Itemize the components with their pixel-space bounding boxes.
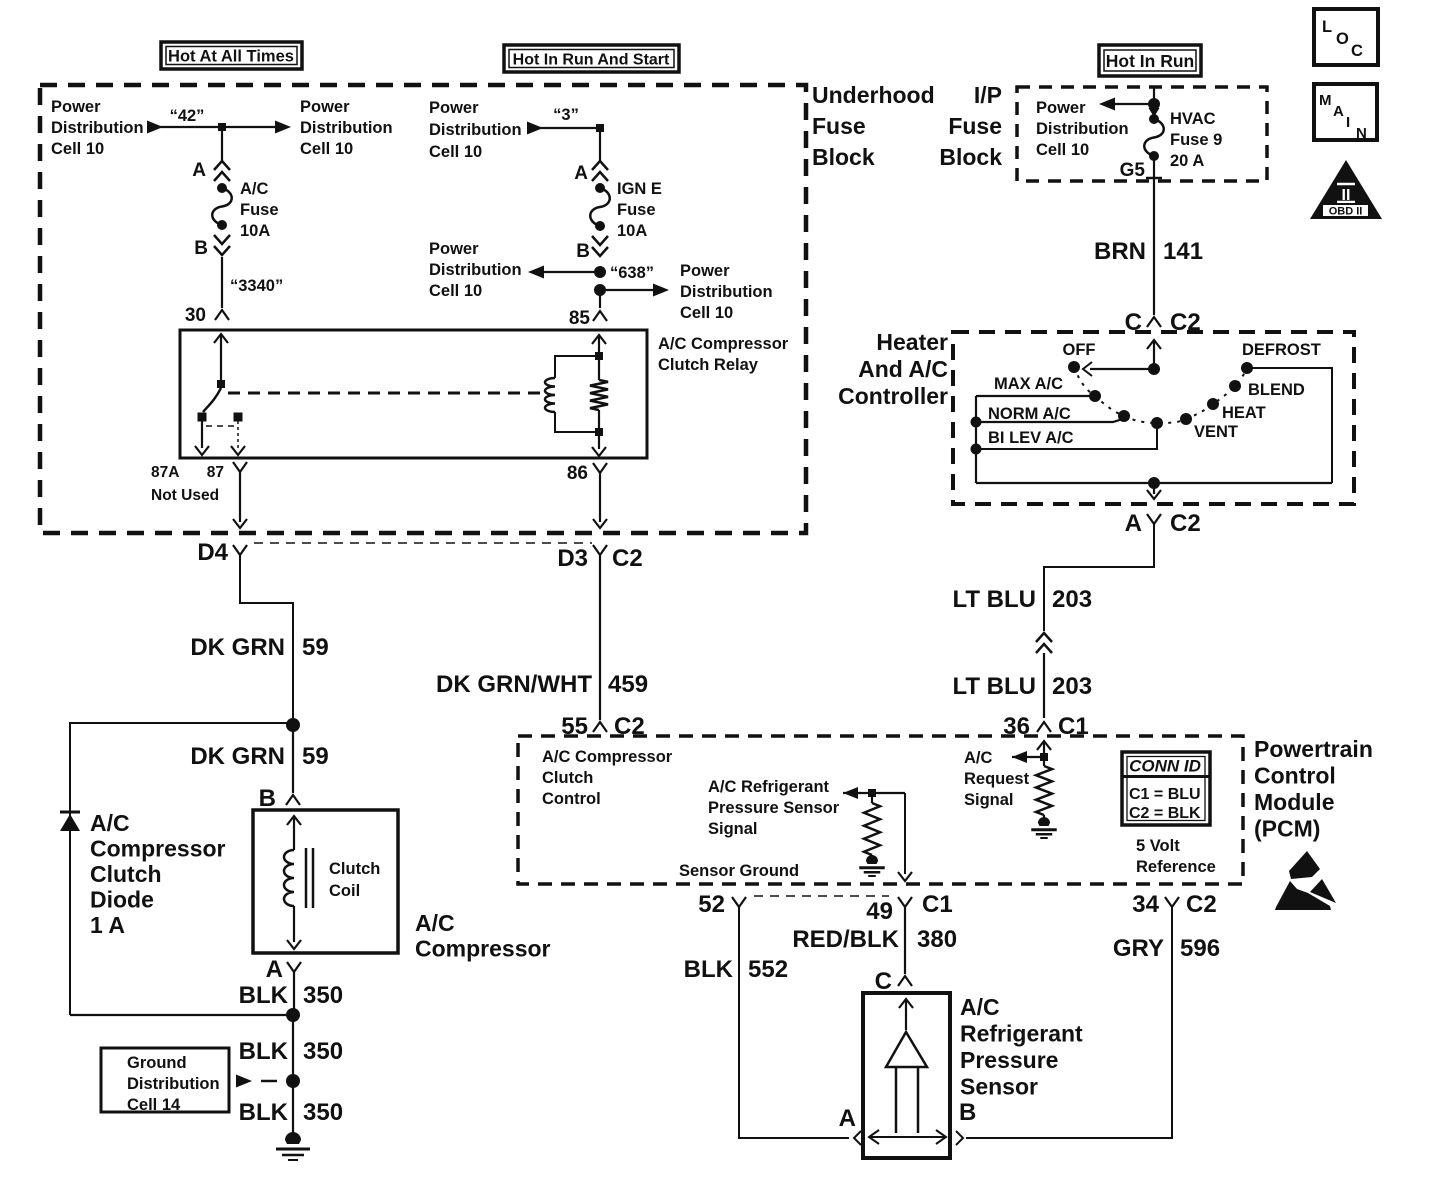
svg-text:LT BLU: LT BLU [952,673,1036,700]
relay pin 30 internal wire [214,334,228,343]
svg-text:203: 203 [1052,673,1092,700]
svg-text:NORM A/C: NORM A/C [988,405,1071,423]
svg-text:Power: Power [429,240,479,258]
svg-text:5 Volt: 5 Volt [1136,837,1180,855]
svg-text:Fuse: Fuse [948,113,1002,139]
heater and A/C controller border [953,332,1354,504]
svg-text:Distribution: Distribution [429,121,522,139]
svg-text:Hot At All Times: Hot At All Times [168,48,294,66]
svg-text:Power: Power [1036,99,1086,117]
wire signal to pin 49 [904,793,906,874]
svg-text:Clutch: Clutch [329,860,380,878]
svg-text:Sensor: Sensor [960,1074,1038,1100]
svg-text:Cell 10: Cell 10 [1036,141,1089,159]
svg-text:A/C Compressor: A/C Compressor [542,748,673,766]
wire D4 to junction [240,555,293,718]
wire to diode branch [70,723,293,1015]
svg-text:DK GRN/WHT: DK GRN/WHT [436,671,592,698]
svg-text:Power: Power [300,98,350,116]
svg-text:(PCM): (PCM) [1254,816,1320,842]
relay switch blade [203,388,221,412]
OBD II symbol [1310,160,1382,219]
sensor signal arrow [899,999,913,1008]
relay actuation dashed link [228,392,546,395]
svg-text:MAX A/C: MAX A/C [994,375,1063,393]
wire BRN 141 [1153,181,1155,315]
svg-text:BRN: BRN [1094,238,1146,265]
svg-text:BLK: BLK [239,1038,289,1065]
svg-text:OFF: OFF [1063,341,1096,359]
svg-text:Diode: Diode [90,887,154,913]
svg-text:Compressor: Compressor [90,836,226,862]
svg-text:RED/BLK: RED/BLK [792,926,899,953]
svg-text:Power: Power [680,262,730,280]
switch contact OFF [1068,361,1080,373]
svg-text:I/P: I/P [974,82,1002,108]
svg-text:Control: Control [542,790,601,808]
label box: Hot In Run [1099,45,1201,76]
wire BLK 552 [739,907,849,1138]
resistor R sensor signal pull [871,793,873,803]
ground (sensor signal) [871,855,873,858]
svg-text:B: B [576,241,590,262]
wire pin 86 down inside relay [598,432,600,449]
diode A/C compressor clutch diode [60,811,80,814]
svg-text:350: 350 [303,1038,343,1065]
svg-text:Refrigerant: Refrigerant [960,1021,1083,1047]
svg-text:Distribution: Distribution [680,283,773,301]
wire to power distribution right [222,126,276,128]
svg-text:Fuse: Fuse [617,201,656,219]
svg-text:A: A [574,163,588,184]
ground G (battery negative) [285,1132,301,1144]
svg-text:Block: Block [812,144,875,170]
in-line connector on LT BLU [1036,633,1052,642]
svg-text:Power: Power [429,99,479,117]
svg-text:C2: C2 [1170,510,1201,537]
wire 87 down (dotted) [237,421,239,448]
svg-text:52: 52 [698,891,725,918]
svg-text:A/C: A/C [240,180,269,198]
svg-text:Module: Module [1254,789,1335,815]
sensor transducer triangle [886,1032,927,1067]
junction on collector [1148,477,1160,489]
svg-text:A/C Compressor: A/C Compressor [658,335,789,353]
svg-text:A: A [1333,103,1344,120]
wire 3340 [221,257,223,308]
BI LEV A/C line [971,444,982,455]
fuse IGN E Fuse 10A [595,183,605,193]
svg-text:203: 203 [1052,586,1092,613]
wire 87A down [201,421,203,448]
relay: A/C Compressor Clutch Relay [180,330,647,458]
svg-text:BLEND: BLEND [1248,381,1305,399]
wire D3 to pin 55 [599,555,601,720]
svg-text:N: N [1356,125,1367,142]
svg-text:L: L [1322,18,1332,36]
svg-text:M: M [1319,92,1332,109]
wire diode to lower junction [70,1014,286,1016]
svg-text:IGN E: IGN E [617,180,662,198]
svg-text:Hot In Run: Hot In Run [1106,51,1194,71]
wire down to fuse A [599,128,601,161]
svg-text:Compressor: Compressor [415,936,551,962]
svg-text:B: B [194,238,208,259]
wire BLK 350 segment 2 [292,1015,294,1074]
svg-text:10A: 10A [240,222,270,240]
svg-text:D4: D4 [197,539,228,566]
svg-text:350: 350 [303,982,343,1009]
wire 87 to D4 [239,472,241,522]
sensor bottom pressure arrows [869,1136,946,1138]
svg-text:“3340”: “3340” [230,277,283,295]
svg-text:BLK: BLK [239,1099,289,1126]
svg-text:Powertrain: Powertrain [1254,736,1373,762]
svg-text:D3: D3 [557,545,588,572]
svg-text:49: 49 [866,898,893,925]
svg-text:A: A [839,1105,856,1132]
svg-text:34: 34 [1132,891,1159,918]
switch contact BI LEV A/C [1151,417,1163,429]
fuse HVAC Fuse 9 20A [1153,104,1155,119]
relay contact 87A [198,413,207,422]
svg-text:Distribution: Distribution [429,261,522,279]
fuse A/C Fuse 10A [217,183,227,193]
svg-text:OBD II: OBD II [1329,206,1363,218]
svg-text:C2: C2 [1186,891,1217,918]
svg-text:Cell 10: Cell 10 [429,143,482,161]
svg-text:C2 = BLK: C2 = BLK [1129,805,1201,822]
wire 3 feed [527,122,543,135]
MAIN reference box [1314,84,1377,140]
svg-text:“3”: “3” [553,106,579,124]
svg-text:I: I [1346,114,1350,131]
ground distribution callout box [101,1048,229,1112]
svg-text:A/C: A/C [415,910,455,936]
svg-text:Fuse 9: Fuse 9 [1170,131,1222,149]
svg-text:Ground: Ground [127,1054,187,1072]
svg-text:87: 87 [207,464,224,481]
connector boundary line C1 (light dashed) [754,895,889,897]
MAX A/C line [976,395,1090,397]
svg-text:A: A [266,956,283,983]
svg-text:Not Used: Not Used [151,487,219,504]
svg-text:Controller: Controller [838,383,948,409]
left wall [975,396,977,483]
svg-text:596: 596 [1180,935,1220,962]
svg-text:BLK: BLK [239,982,289,1009]
svg-text:Cell 10: Cell 10 [51,140,104,158]
svg-text:VENT: VENT [1194,423,1238,441]
svg-text:Clutch: Clutch [90,861,162,887]
connector boundary line C2 (light dashed) [254,542,592,544]
wire to OFF contact [1090,368,1154,370]
svg-text:87A: 87A [151,464,179,481]
svg-text:Pressure: Pressure [960,1047,1058,1073]
svg-text:Distribution: Distribution [51,119,144,137]
svg-text:C: C [1351,42,1363,60]
label box: Hot At All Times [161,42,302,69]
svg-text:Control: Control [1254,763,1336,789]
svg-text:A: A [192,160,206,181]
svg-text:Cell 10: Cell 10 [429,282,482,300]
wire heater to PCM pin 36 [1044,524,1154,631]
svg-text:Fuse: Fuse [240,201,279,219]
svg-text:552: 552 [748,956,788,983]
junction node BLK/diode [286,1008,300,1022]
wire into controller [1147,340,1161,349]
svg-text:Block: Block [939,144,1002,170]
junction node ground branch [286,1074,300,1088]
svg-text:A/C Refrigerant: A/C Refrigerant [708,778,830,796]
PCM border [518,736,1243,884]
svg-text:Distribution: Distribution [300,119,393,137]
switch contact NORM A/C [1118,410,1130,422]
sensor pressure stem [895,1067,898,1133]
svg-text:Pressure Sensor: Pressure Sensor [708,799,840,817]
component: A/C Compressor box [253,810,398,953]
svg-text:DEFROST: DEFROST [1242,341,1321,359]
svg-text:“638”: “638” [610,264,654,282]
svg-text:86: 86 [567,463,588,484]
svg-text:Heater: Heater [876,329,948,355]
wire from hot in run into block [1153,87,1155,99]
switch contact DEFROST [1241,362,1253,374]
ground (request) [1043,815,1045,820]
NORM A/C line [971,417,982,428]
wire 42 feed [147,121,163,134]
label box: Hot In Run And Start [504,45,679,72]
svg-text:G5: G5 [1120,160,1146,181]
DEFROST line [1247,368,1332,483]
svg-text:C1: C1 [922,891,953,918]
svg-text:B: B [259,785,276,812]
switch contact VENT [1180,413,1192,425]
I/P fuse block border [1017,87,1267,181]
relay coil branch [555,356,599,378]
relay contact 87 [234,413,243,422]
svg-text:Signal: Signal [708,820,758,838]
svg-text:1 A: 1 A [90,912,125,938]
svg-text:C2: C2 [612,545,643,572]
resistor R request pull [1043,757,1045,766]
svg-text:141: 141 [1163,238,1203,265]
switch contact BLEND [1229,380,1241,392]
svg-text:Cell 14: Cell 14 [127,1096,181,1114]
LOC reference box [1314,9,1378,65]
signal arrow to sensor signal [843,787,858,799]
svg-text:30: 30 [185,305,206,326]
svg-text:59: 59 [302,634,329,661]
svg-text:Clutch: Clutch [542,769,593,787]
svg-text:C1 = BLU: C1 = BLU [1129,786,1201,803]
svg-text:Fuse: Fuse [812,113,866,139]
switch contact MAX A/C [1089,390,1101,402]
dashed link 87A-87 [206,425,234,427]
svg-text:O: O [1336,30,1349,48]
svg-text:BLK: BLK [684,956,734,983]
svg-text:Distribution: Distribution [1036,120,1129,138]
svg-text:Reference: Reference [1136,858,1216,876]
svg-text:A/C: A/C [90,810,130,836]
svg-text:Coil: Coil [329,882,360,900]
svg-text:380: 380 [917,926,957,953]
component: A/C Refrigerant Pressure Sensor box [863,993,950,1158]
wire BLK 350 segment 3 [292,1081,294,1136]
junction node request [1040,753,1048,761]
svg-text:HVAC: HVAC [1170,110,1216,128]
svg-text:“42”: “42” [170,107,205,125]
svg-text:A: A [1125,510,1142,537]
wire out of controller [1153,483,1155,494]
svg-text:GRY: GRY [1113,935,1164,962]
svg-text:59: 59 [302,743,329,770]
svg-text:Cell 10: Cell 10 [680,304,733,322]
underhood fuse block border [40,85,806,533]
A/C request arrow [1012,751,1027,763]
wire GRY 596 [966,907,1172,1138]
svg-text:Cell 10: Cell 10 [300,140,353,158]
switch contact HEAT [1207,398,1219,410]
CONN ID legend box [1122,752,1210,825]
wire RED/BLK 380 [904,907,906,974]
svg-text:Power: Power [51,98,101,116]
wire BLK 350 segment 1 [293,972,295,1010]
svg-text:A/C: A/C [964,749,993,767]
svg-text:BI LEV A/C: BI LEV A/C [988,429,1074,447]
svg-text:10A: 10A [617,222,647,240]
wire down to pin 85 [599,290,601,308]
wire to left power distribution [594,266,606,278]
wire to power distribution (I/P) [1148,98,1160,110]
relay resistor branch [598,360,600,380]
junction node DK GRN [286,718,300,732]
svg-text:Sensor Ground: Sensor Ground [679,862,799,880]
svg-text:Clutch Relay: Clutch Relay [658,356,759,374]
svg-text:Underhood: Underhood [812,82,935,108]
svg-text:HEAT: HEAT [1222,404,1266,422]
svg-text:Distribution: Distribution [127,1075,220,1093]
relay pin 85 internal wire [592,335,606,344]
bottom collector line [976,482,1332,484]
svg-text:85: 85 [569,308,591,329]
svg-text:DK GRN: DK GRN [190,634,285,661]
svg-text:350: 350 [303,1099,343,1126]
rotary switch arc (dashed) [1074,367,1247,423]
ESD sensitivity symbol [1289,851,1320,879]
svg-text:Request: Request [964,770,1030,788]
svg-text:459: 459 [608,671,648,698]
svg-text:LT BLU: LT BLU [952,586,1036,613]
svg-text:B: B [959,1099,976,1126]
svg-text:C: C [875,968,892,995]
svg-text:DK GRN: DK GRN [190,743,285,770]
wire junction to pin B [292,725,294,793]
svg-text:Hot In Run And Start: Hot In Run And Start [513,52,670,69]
junction node sensor signal [868,789,876,797]
svg-text:20 A: 20 A [1170,152,1204,170]
wire down to fuse A [221,127,223,161]
svg-text:And A/C: And A/C [858,356,948,382]
arrow from ground distribution [236,1075,252,1088]
svg-text:Signal: Signal [964,791,1014,809]
clutch coil L1 [287,816,301,825]
svg-text:A/C: A/C [960,994,1000,1020]
wire 86 to D3 [599,473,601,522]
svg-text:CONN ID: CONN ID [1129,757,1201,776]
